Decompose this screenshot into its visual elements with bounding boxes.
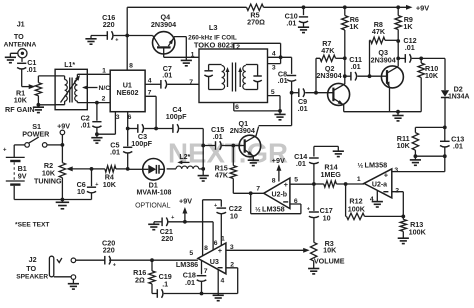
svg-text:LM358: LM358	[365, 160, 388, 169]
node gnd bottom	[61, 198, 65, 202]
svg-text:.01: .01	[296, 159, 306, 168]
node C15-R15-Q1base	[231, 144, 235, 148]
svg-text:½: ½	[358, 161, 364, 169]
svg-text:2: 2	[102, 95, 106, 102]
svg-text:3: 3	[272, 64, 276, 71]
svg-text:8: 8	[272, 178, 276, 185]
wire R11/C13 bottoms	[415, 155, 444, 157]
wire U3 pin4 ground	[217, 270, 219, 294]
wire U3 output	[76, 259, 105, 261]
wiper wire R1	[22, 86, 33, 88]
svg-text:N/C: N/C	[99, 85, 111, 92]
ground below L2	[202, 169, 204, 176]
svg-text:10K: 10K	[323, 246, 337, 255]
svg-text:100K: 100K	[409, 227, 427, 236]
transistor Q3	[381, 66, 403, 88]
capacitor C16	[91, 35, 107, 37]
ground U2-a pin4	[376, 191, 378, 202]
resistor R5	[247, 4, 264, 10]
svg-text:LM358: LM358	[262, 205, 285, 214]
svg-text:3: 3	[116, 114, 120, 121]
svg-text:2N3904: 2N3904	[230, 126, 255, 135]
svg-text:5: 5	[189, 250, 193, 257]
svg-text:9V: 9V	[18, 172, 27, 181]
capacitor C19	[156, 289, 158, 298]
ground below tuning bottom wire	[61, 200, 63, 203]
svg-text:+9V: +9V	[57, 121, 70, 130]
svg-text:3: 3	[394, 167, 398, 174]
wire U3 pin7 / C18	[201, 260, 203, 274]
potentiometer R2	[60, 130, 65, 135]
capacitor C8	[291, 57, 293, 74]
resistor R11	[415, 126, 444, 128]
varactor diode D1	[143, 159, 165, 181]
svg-text:7: 7	[148, 89, 152, 96]
node R1 bottom	[37, 103, 41, 107]
wire L1 pin1 to U1	[87, 73, 110, 75]
RF transformer L1 box	[55, 69, 87, 109]
capacitor C5	[127, 129, 129, 147]
svg-text:.01: .01	[185, 278, 195, 287]
ground below U3	[217, 294, 219, 296]
node rail-C10	[302, 5, 306, 9]
svg-text:8: 8	[204, 245, 208, 252]
L1 tuning arrow	[61, 77, 80, 103]
svg-text:2N3904: 2N3904	[371, 55, 396, 64]
svg-text:U2-a: U2-a	[372, 181, 387, 188]
wire R1 bottom to L1	[38, 104, 55, 106]
wire Q4 base	[127, 35, 153, 37]
svg-text:+: +	[384, 171, 389, 180]
svg-text:2: 2	[236, 44, 240, 51]
node D2-R11	[443, 126, 447, 130]
node pin6 gnd	[278, 109, 282, 113]
wiper wire R2	[69, 168, 92, 170]
wire U1 pin6	[127, 112, 129, 129]
svg-text:2N3904: 2N3904	[151, 20, 176, 29]
wire J1 to ground	[10, 53, 17, 57]
node emitter gnd	[396, 110, 400, 114]
node C16-pin8	[125, 34, 129, 38]
svg-text:.01: .01	[405, 43, 415, 52]
L1 secondary winding	[75, 80, 78, 102]
diode D2	[444, 58, 446, 90]
transistor Q1	[239, 135, 261, 157]
connector J1	[18, 49, 27, 58]
svg-text:10: 10	[323, 213, 331, 222]
svg-text:RF GAIN: RF GAIN	[5, 105, 35, 114]
node pin7-C3-C4	[154, 127, 158, 131]
svg-text:POWER: POWER	[22, 130, 50, 139]
svg-text:+9V: +9V	[272, 156, 285, 165]
capacitor C7	[145, 83, 161, 85]
svg-text:.01: .01	[298, 104, 308, 113]
svg-text:J1: J1	[17, 20, 25, 29]
node R2-switch	[61, 143, 65, 147]
wire Q2/Q3 emitters	[344, 111, 422, 113]
svg-text:+9V: +9V	[416, 3, 429, 12]
wire U3 pin6 to +9V	[212, 222, 214, 250]
node output-R15	[249, 191, 253, 195]
svg-text:NEXT.GR: NEXT.GR	[168, 138, 288, 169]
svg-text:47K: 47K	[215, 171, 229, 180]
svg-text:100pF: 100pF	[131, 139, 152, 148]
capacitor C21	[161, 218, 163, 227]
capacitor C1	[21, 58, 23, 62]
svg-text:220: 220	[161, 234, 173, 243]
wire U3 pin2 return	[202, 268, 238, 294]
node output-R12	[344, 182, 348, 186]
node C8-C9	[290, 91, 294, 95]
svg-text:1N34A: 1N34A	[448, 94, 469, 101]
battery B1	[13, 145, 15, 158]
capacitor C17	[313, 184, 315, 211]
ground left of C16	[90, 36, 92, 39]
capacitor C15	[203, 145, 215, 147]
L1 core lines	[69, 78, 71, 103]
wire U3 pin3 to volume	[226, 249, 307, 251]
potentiometer R3 VOLUME	[313, 241, 315, 243]
L3 pin 6 wire	[234, 103, 280, 111]
node pin2-C2	[95, 101, 99, 105]
svg-text:1K: 1K	[349, 22, 359, 31]
resistor R7	[336, 57, 345, 59]
node R6-R7	[343, 56, 347, 60]
wire U2-b output	[233, 192, 263, 194]
svg-text:½: ½	[255, 206, 261, 214]
svg-text:.01: .01	[453, 142, 463, 151]
wire L1 pin2 to U1	[87, 102, 110, 104]
svg-text:7: 7	[204, 268, 208, 275]
node C14-C17-R14	[312, 182, 316, 186]
wire Q4 emitter to ground	[185, 37, 187, 58]
svg-text:7: 7	[256, 185, 260, 192]
svg-text:5: 5	[294, 176, 298, 183]
capacitor C9	[292, 92, 299, 94]
ground below R3	[308, 268, 319, 270]
node gnd-R11	[414, 154, 418, 158]
ground left of C21	[153, 222, 155, 225]
capacitor C13	[444, 127, 446, 141]
svg-text:.01: .01	[162, 71, 172, 80]
svg-text:TO: TO	[26, 264, 36, 273]
svg-text:U3: U3	[210, 257, 219, 266]
svg-text:220: 220	[103, 20, 115, 29]
node R9-R8	[396, 39, 400, 43]
wire to U2-a pin3	[392, 156, 445, 171]
svg-text:270Ω: 270Ω	[247, 18, 265, 27]
svg-text:.01: .01	[278, 76, 288, 85]
L3 internal capacitor right	[257, 65, 259, 76]
svg-text:1: 1	[191, 52, 195, 59]
ground below Q4 emitter	[185, 57, 187, 60]
svg-text:1K: 1K	[403, 22, 413, 31]
wire U3 pin8 to C22	[203, 200, 222, 256]
resistor R4	[116, 168, 128, 170]
svg-text:.01: .01	[286, 19, 296, 28]
svg-text:VOLUME: VOLUME	[314, 256, 345, 265]
svg-text:5: 5	[271, 89, 275, 96]
resistor R8	[385, 39, 398, 41]
node pin6-C3	[126, 127, 130, 131]
svg-text:10K: 10K	[425, 71, 439, 80]
resistor R12	[345, 184, 348, 216]
svg-text:U2-b: U2-b	[272, 191, 288, 198]
wire U1 pin7	[145, 96, 156, 128]
svg-text:1: 1	[357, 176, 361, 183]
capacitor C12	[398, 57, 405, 59]
svg-text:TOKO 8023: TOKO 8023	[194, 41, 234, 50]
svg-text:SPEAKER: SPEAKER	[16, 273, 48, 280]
svg-text:10K: 10K	[14, 95, 28, 104]
capacitor C11	[345, 75, 351, 77]
svg-text:MVAM-108: MVAM-108	[137, 190, 172, 197]
capacitor C6	[91, 169, 93, 186]
+9V arrow top right	[406, 5, 413, 10]
svg-text:10: 10	[230, 212, 238, 221]
switch S1	[25, 143, 30, 148]
svg-text:47K: 47K	[321, 46, 335, 55]
svg-text:.1: .1	[162, 279, 168, 288]
wire Q1 collector to C9 node	[259, 93, 292, 126]
ground below L3 pin6 wire	[279, 111, 281, 115]
svg-text:+9V: +9V	[179, 197, 192, 206]
svg-text:+: +	[214, 203, 217, 209]
+9V arrow above U2-b	[278, 168, 280, 182]
svg-text:TUNING: TUNING	[34, 176, 62, 185]
wire C14 top to ground	[314, 146, 338, 151]
ground below J2	[72, 279, 74, 283]
op-amp U2-a	[364, 169, 392, 198]
svg-text:.01: .01	[81, 121, 91, 130]
wire U1 pin3	[97, 112, 116, 135]
svg-text:+: +	[113, 263, 116, 269]
node C11-R8	[368, 74, 372, 78]
op-amp U2-b	[264, 178, 290, 209]
svg-text:47K: 47K	[372, 27, 386, 36]
inductor L2	[176, 166, 199, 169]
speaker jack J2	[49, 256, 53, 277]
svg-text:+: +	[307, 206, 310, 212]
node +9V arrow	[183, 220, 187, 224]
wire Q4 to L3 pin1	[164, 56, 199, 58]
svg-text:6: 6	[235, 104, 239, 111]
capacitor C10	[303, 7, 305, 15]
svg-text:4: 4	[221, 277, 225, 284]
L3 internal winding left	[222, 66, 225, 90]
transistor Q2	[328, 83, 350, 105]
svg-text:10K: 10K	[103, 180, 117, 189]
L3 pin 3 stub	[268, 43, 281, 63]
svg-text:2Ω: 2Ω	[135, 275, 145, 284]
node R12-R13-pin2	[401, 215, 405, 219]
capacitor C14	[313, 146, 315, 156]
svg-text:.01: .01	[27, 65, 37, 74]
ground below C10	[298, 26, 309, 28]
resistor R6	[344, 7, 346, 15]
wire +9V feed	[154, 221, 162, 223]
svg-text:6: 6	[214, 240, 218, 247]
node output-R16	[150, 258, 154, 262]
resistor R16	[151, 260, 153, 271]
potentiometer R1	[35, 83, 41, 96]
svg-text:L2*: L2*	[179, 154, 190, 161]
svg-text:+: +	[115, 37, 118, 43]
node C4-C15-L2	[201, 144, 205, 148]
ground below C2	[96, 134, 98, 138]
svg-text:10K: 10K	[397, 141, 411, 150]
wire U2-a pin2	[392, 192, 404, 217]
svg-text:1MEG: 1MEG	[321, 170, 342, 179]
resistor R15	[232, 179, 234, 194]
wire +9V rail	[127, 6, 246, 8]
svg-text:4: 4	[272, 51, 276, 58]
svg-text:+: +	[284, 180, 289, 189]
capacitor C22	[220, 200, 222, 207]
ground above C14	[333, 150, 344, 152]
node R4-C6	[90, 167, 94, 171]
svg-text:.01: .01	[213, 132, 223, 141]
capacitor C4	[156, 128, 173, 130]
svg-text:TO: TO	[14, 32, 24, 41]
ground below Q3 emitter	[397, 112, 399, 116]
svg-text:J2: J2	[29, 255, 37, 264]
IF transformer L3 box	[199, 49, 268, 103]
capacitor C3	[128, 128, 138, 130]
capacitor C20	[104, 256, 106, 265]
L3 pin 2 wire	[234, 43, 281, 49]
svg-text:1: 1	[102, 67, 106, 74]
svg-text:.01: .01	[351, 62, 361, 71]
audio amp U3	[198, 243, 226, 274]
ground at J1	[5, 56, 16, 58]
svg-text:2N3904: 2N3904	[316, 71, 341, 80]
wire U2-a output	[336, 183, 364, 185]
svg-text:D1: D1	[149, 181, 158, 190]
resistor R13	[402, 216, 404, 219]
capacitor C2	[96, 103, 98, 121]
node C13-pin3	[443, 154, 447, 158]
svg-text:OPTIONAL: OPTIONAL	[135, 203, 171, 210]
L3 tuning arrow left	[227, 70, 229, 87]
L1 primary winding	[65, 80, 68, 102]
wire C4 node down to L2/gnd	[202, 146, 204, 169]
resistor R10	[420, 58, 422, 63]
node C18 bottom	[200, 292, 204, 296]
node C5-R4	[126, 167, 130, 171]
L3 tuning arrow right	[239, 70, 241, 87]
wire R6 to Q2 collector	[344, 58, 346, 84]
node rail-R9	[396, 5, 400, 9]
node C12-R10	[419, 57, 423, 61]
node rail-R6	[343, 5, 347, 9]
L3 pin 4 wire	[268, 56, 292, 58]
svg-text:10: 10	[77, 187, 85, 196]
node L3 pin4-pin2	[279, 55, 283, 59]
svg-text:+: +	[218, 246, 223, 255]
svg-text:.01: .01	[110, 148, 120, 157]
svg-text:100pF: 100pF	[166, 112, 187, 121]
svg-text:LM386: LM386	[176, 260, 198, 269]
wire U2-b feedback	[251, 193, 301, 213]
node Q2 base-R7	[314, 91, 318, 95]
transistor Q4	[153, 32, 175, 54]
svg-text:220: 220	[103, 245, 115, 254]
node Q2 collector-C11	[343, 74, 347, 78]
resistor R9	[397, 7, 399, 15]
svg-text:*SEE TEXT: *SEE TEXT	[15, 221, 49, 228]
L3 core lines	[231, 63, 233, 92]
svg-text:100K: 100K	[348, 205, 366, 214]
svg-text:L1*: L1*	[64, 62, 75, 69]
L3 internal winding right	[243, 66, 246, 90]
wire U1 pin8 to rail	[126, 7, 128, 70]
svg-text:ANTENNA: ANTENNA	[4, 41, 37, 48]
node L2 right	[201, 167, 205, 171]
svg-text:NE602: NE602	[117, 88, 139, 97]
+9V arrow above C21	[184, 210, 186, 222]
N/C arrow	[84, 87, 98, 89]
svg-text:D2: D2	[454, 85, 463, 94]
svg-text:4: 4	[148, 77, 152, 84]
ground below Q1 emitter	[248, 159, 259, 161]
svg-text:+: +	[3, 147, 7, 153]
resistor R14	[324, 181, 337, 187]
ground below R11	[414, 156, 416, 160]
wire U2-b pin5	[290, 183, 314, 185]
svg-text:L3: L3	[209, 23, 218, 32]
svg-text:+: +	[95, 182, 98, 188]
node R9-C12	[396, 57, 400, 61]
mixer U1 box	[110, 70, 145, 112]
L3 internal capacitor left	[208, 65, 210, 71]
svg-text:8: 8	[129, 63, 133, 70]
wire bottom power return	[14, 199, 91, 201]
ground below R1	[37, 105, 39, 107]
node C2 gnd	[95, 132, 99, 136]
svg-text:+: +	[171, 215, 174, 221]
L3 pin 5 wire	[268, 96, 281, 111]
L2 arrow	[179, 161, 190, 163]
ground below R13	[398, 237, 409, 239]
